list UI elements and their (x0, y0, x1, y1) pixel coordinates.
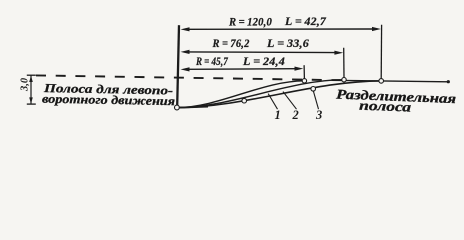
transition curve 3 (R=45,7) (177, 81, 305, 108)
svg-text:L = 24,4: L = 24,4 (242, 55, 285, 68)
leader of label 2 (283, 92, 297, 110)
lane width dimension 3,0 (27, 75, 36, 104)
transition curve 2 (R=76,2) (177, 80, 344, 108)
node: end of curve 2 (342, 78, 346, 82)
wire: thick common start of curve bundle (177, 107, 208, 108)
transition curve 1 (R=120) (177, 81, 381, 108)
svg-text:L = 33,6: L = 33,6 (266, 37, 309, 50)
leader of label 3 (313, 91, 318, 109)
svg-text:R = 76,2: R = 76,2 (212, 37, 250, 50)
right extension tick of R=120 (380, 25, 382, 79)
node on curve 1 at x=313 (311, 87, 316, 92)
node: end of curve 3 (302, 79, 306, 83)
svg-text:2: 2 (292, 108, 299, 122)
leader of label 1 (268, 94, 277, 110)
dimension line R=120 L=42,7 (181, 27, 381, 32)
svg-text:3,0: 3,0 (20, 77, 31, 92)
dimension line R=76,2 L=33,6 (181, 50, 344, 55)
svg-text:1: 1 (275, 108, 281, 122)
node: end of curve 1 (379, 79, 384, 84)
end dot of median line (447, 80, 450, 83)
svg-text:R = 120,0: R = 120,0 (228, 15, 272, 28)
node on curve 1 at x=244 (242, 98, 247, 103)
solid median line right part (340, 80, 448, 81)
svg-text:L = 42,7: L = 42,7 (284, 15, 327, 28)
dimension line R=45,7 L=24,4 (181, 67, 304, 72)
dashed median line (36, 75, 340, 80)
svg-text:воротного движения: воротного движения (42, 92, 175, 109)
extension tick of R=45,7 (303, 65, 305, 78)
extension tick of R=76,2 (343, 48, 345, 78)
svg-text:3: 3 (315, 108, 322, 122)
svg-text:полоса: полоса (359, 98, 412, 115)
left extension bar (common origin tick) (177, 25, 179, 105)
node: curve origin (175, 105, 180, 110)
svg-text:R = 45,7: R = 45,7 (195, 55, 229, 68)
